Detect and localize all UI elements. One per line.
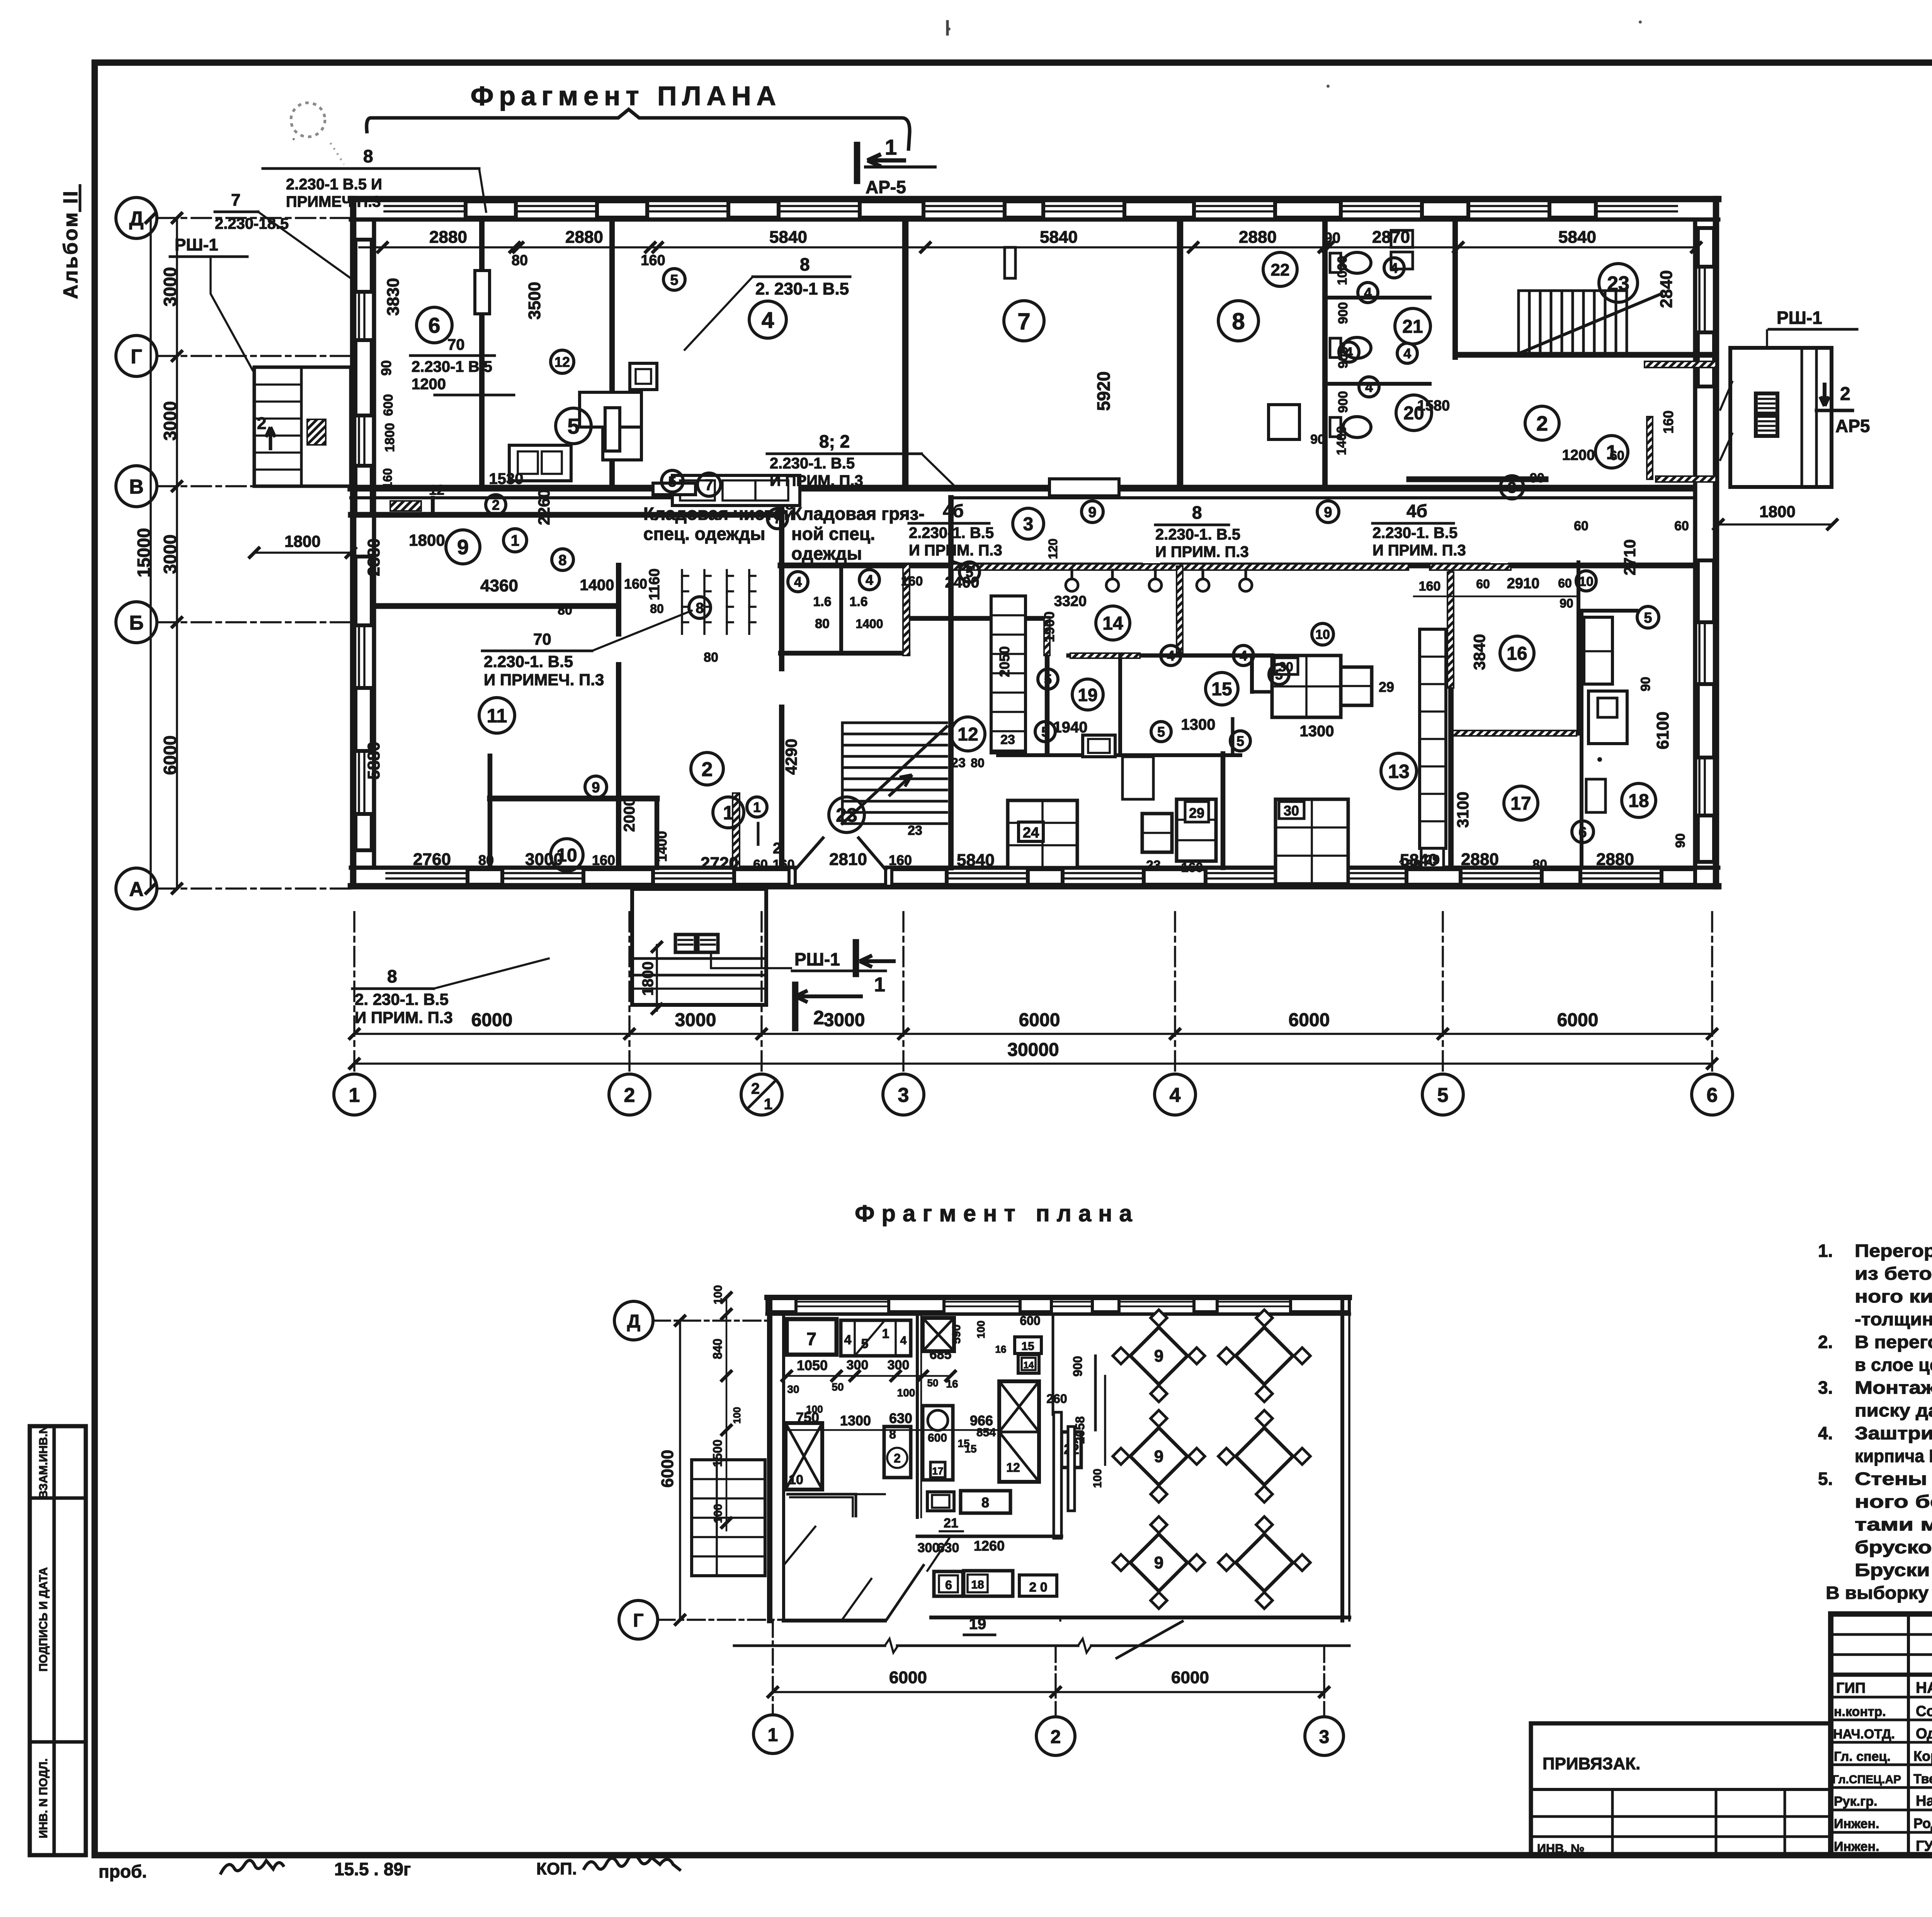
svg-text:4б: 4б [943,501,964,521]
svg-text:12: 12 [1006,1461,1020,1474]
svg-text:8; 2: 8; 2 [819,431,850,451]
stair treads room 23 upper [1517,291,1520,354]
svg-text:3000: 3000 [160,401,180,441]
wall under room 19 [998,753,1240,757]
room circle 15 [1206,672,1238,705]
svg-text:И ПРИМ. П.3: И ПРИМ. П.3 [909,542,1002,559]
leader circle 2 tambour [486,495,506,515]
axis circle В [116,466,157,507]
svg-text:23: 23 [1000,732,1015,747]
svg-text:Стены сушильной камеры и та: Стены сушильной камеры и тамбуров утепли… [1855,1469,1932,1489]
svg-text:18: 18 [971,1578,984,1591]
svg-text:630: 630 [889,1410,912,1426]
svg-text:9: 9 [1154,1553,1163,1572]
svg-text:21: 21 [944,1516,958,1531]
axis circle 1 [334,1074,375,1115]
svg-text:160: 160 [889,852,912,868]
svg-text:70: 70 [447,336,465,353]
fragment kitchen box 7 [787,1319,837,1355]
svg-text:РШ-1: РШ-1 [794,949,840,969]
room circle 13 [1381,753,1417,789]
handwritten name scribble [583,1855,681,1871]
wall rooms 13-16 [1448,570,1454,868]
svg-text:80: 80 [815,616,830,631]
svg-text:260: 260 [1046,1392,1067,1406]
svg-text:19: 19 [969,1616,986,1633]
dimension 1800 south vertical [656,945,658,1011]
svg-text:ПРИВЯЗАК.: ПРИВЯЗАК. [1543,1754,1640,1773]
locker block 30 upper [1272,655,1341,717]
stair treads room 23 lower [842,722,947,724]
svg-text:НАЗАРОВА: НАЗАРОВА [1916,1679,1932,1696]
svg-text:ПОДПИСЬ И ДАТА: ПОДПИСЬ И ДАТА [37,1567,50,1672]
room 12 locker column [991,596,1026,753]
section flag 1 АР-5 top [854,145,861,181]
svg-text:6: 6 [945,1578,952,1592]
south wall inner face west [351,866,794,870]
svg-text:5: 5 [668,474,676,490]
svg-text:15: 15 [1211,679,1232,700]
svg-text:14: 14 [1024,1360,1034,1371]
fragment axis circle 2 [1036,1717,1075,1755]
svg-text:4: 4 [1403,346,1411,361]
svg-text:1200: 1200 [1562,447,1595,463]
leader circle 10 east [1576,571,1596,591]
corridor north wall inner line [351,496,781,499]
svg-text:И ПРИМ. П.3: И ПРИМ. П.3 [1372,542,1466,559]
svg-text:АР5: АР5 [1835,416,1870,436]
svg-text:5920: 5920 [1094,371,1114,411]
wall toilets - stair 23 [1452,220,1458,357]
locker column room 13 east [1420,629,1446,848]
leader circle 5 shower 6 [1230,731,1250,751]
svg-text:160: 160 [1399,857,1421,872]
svg-text:2.230-1. В.5: 2.230-1. В.5 [1372,524,1458,541]
svg-text:2: 2 [492,497,500,513]
svg-text:4360: 4360 [480,576,518,595]
dining tables [1130,1327,1187,1384]
leader circle 6 room17 [1572,821,1594,843]
svg-text:Инжен.: Инжен. [1834,1839,1879,1854]
svg-text:3500: 3500 [525,282,544,320]
svg-text:5840: 5840 [769,228,807,247]
wall rooms 16-17 [1451,731,1578,736]
fragment bottom boxes 6 18 20 [934,1571,963,1596]
room circle 21 [1395,308,1430,344]
svg-text:ГИП: ГИП [1836,1680,1866,1696]
axis circle 3 [883,1074,924,1115]
fragment tall X-box [999,1381,1039,1482]
leader circle 4 storeroom 2 [859,570,879,590]
svg-text:20: 20 [1403,403,1424,424]
svg-text:ИНВ. №: ИНВ. № [1537,1842,1585,1856]
svg-text:9: 9 [1324,504,1332,521]
door leaf room 6 [475,271,490,314]
svg-text:Кладовая чистой: Кладовая чистой [643,504,795,524]
svg-text:1300: 1300 [840,1413,871,1428]
svg-text:100: 100 [731,1407,743,1423]
fragment west wall [767,1297,772,1621]
leader circle 3 east [1500,476,1524,499]
svg-text:2810: 2810 [829,850,867,869]
svg-text:10: 10 [556,845,577,866]
room circle 18 [1622,783,1656,817]
room circle 23 upper [1599,264,1638,302]
svg-text:Кладовая гряз-: Кладовая гряз- [791,504,925,524]
fragment door swing lines [887,1565,923,1619]
wall rooms 12-13 [1221,754,1226,868]
svg-text:1800: 1800 [284,532,320,550]
svg-text:300: 300 [918,1541,940,1555]
partition room 19 [1118,655,1122,755]
svg-text:1800: 1800 [409,531,445,549]
fragment bottom dimension chain [773,1691,1324,1693]
locker block 30 lower [1276,799,1348,884]
svg-text:2880: 2880 [364,538,383,576]
svg-text:12: 12 [429,482,444,498]
svg-text:5: 5 [1275,667,1283,683]
svg-text:2880: 2880 [1239,228,1277,247]
room circle 1 west [713,797,744,828]
room 5 sink counter [672,475,800,506]
room 18 bench [1586,779,1605,812]
svg-text:В выборку металла к данном: В выборку металла к данному листу см. АР… [1826,1583,1932,1603]
svg-text:4: 4 [1364,285,1372,301]
bottom interior dimension chain [383,862,1696,863]
hatched wall rooms 14-15 [1177,566,1183,653]
svg-text:18: 18 [1628,791,1649,811]
fragment left dimension 6000 [679,1321,681,1620]
fragment box 22 [1061,1432,1081,1468]
svg-text:3: 3 [1508,479,1516,496]
svg-text:1400: 1400 [855,617,883,631]
svg-text:Б: Б [129,612,143,634]
fragment small vertical dims [726,1299,728,1531]
svg-text:писку данной серии.: писку данной серии. [1855,1400,1932,1420]
east section mark 2 [1820,383,1829,406]
svg-text:Бруски пропитать огнезащитны: Бруски пропитать огнезащитным составом. [1855,1560,1932,1580]
svg-text:11: 11 [487,705,507,727]
fragment vertical bars [1054,1412,1061,1538]
entrance door jambs south [789,868,795,886]
svg-text:23: 23 [1607,272,1629,295]
wall rooms 7-8 [1177,220,1184,488]
svg-text:И ПРИМЕЧ. П.3: И ПРИМЕЧ. П.3 [484,671,604,689]
svg-text:5840: 5840 [957,851,995,870]
svg-text:160: 160 [901,574,923,589]
svg-text:2870: 2870 [1372,228,1410,247]
svg-text:300: 300 [888,1358,910,1372]
wall rooms 14-19 [1252,690,1272,694]
section flag 1 bottom [853,942,859,974]
svg-text:ПРИМЕЧ П.3: ПРИМЕЧ П.3 [286,193,381,210]
svg-text:проб.: проб. [99,1861,147,1881]
svg-text:в слое цементного раствора на: в слое цементного раствора на толщину пе… [1855,1355,1932,1375]
svg-text:8: 8 [696,600,704,616]
svg-text:160: 160 [381,468,395,489]
west entrance partitions [431,498,435,515]
fragment brace [367,109,910,151]
fragment box 21 [927,1492,954,1511]
svg-text:1400: 1400 [580,577,614,594]
top dimension chain [359,246,1696,249]
south wall piers [468,869,502,885]
svg-text:1900: 1900 [1041,611,1057,642]
svg-text:685: 685 [930,1347,952,1362]
svg-text:7: 7 [1017,308,1030,334]
wall rooms 19-15 [1231,719,1235,755]
svg-text:8: 8 [558,552,566,569]
svg-text:6000: 6000 [1289,1010,1330,1030]
svg-text:4.: 4. [1818,1423,1833,1443]
svg-text:2260: 2260 [535,489,553,525]
room circle 20 [1396,395,1432,431]
axis circle 2/1 [741,1074,782,1115]
leader circle 5 mid [662,470,683,492]
vestibule west wall upper [779,498,784,669]
fragment X-box top [923,1318,954,1351]
fragment south wall [784,1619,885,1622]
room circle 5 [556,408,591,444]
svg-text:23: 23 [951,756,966,770]
svg-text:6000: 6000 [1171,1668,1209,1687]
svg-text:7: 7 [806,1329,816,1349]
wall 9-10 upper [616,565,621,634]
fragment axis Д [614,1301,653,1340]
svg-text:4: 4 [1365,379,1373,395]
svg-text:2.230-1 В.5: 2.230-1 В.5 [412,358,492,375]
svg-text:-толщиной 120мм.: -толщиной 120мм. [1855,1309,1932,1329]
room 18 table [1588,691,1627,744]
svg-text:10: 10 [1315,627,1330,642]
svg-text:10: 10 [1579,574,1594,589]
title block outer [1831,1614,1932,1855]
leader circle 5 room16 [1637,606,1659,628]
fragment shelf below 10 [786,1494,856,1517]
svg-text:Д: Д [627,1311,640,1332]
bottom dimension chain [354,1033,1712,1035]
svg-text:9: 9 [1154,1447,1163,1466]
locker block 29 [1177,799,1216,861]
svg-text:160: 160 [1419,579,1441,594]
svg-text:3.: 3. [1818,1377,1833,1398]
svg-text:АР-5: АР-5 [866,177,906,197]
привязка box [1531,1723,1831,1855]
south wall window glazing [386,872,468,874]
svg-text:16: 16 [995,1343,1007,1355]
leader circle 4 toilet 3 [1339,342,1359,362]
svg-text:4290: 4290 [782,739,800,775]
svg-text:1800: 1800 [383,423,397,452]
room 8 couch [1269,405,1299,439]
svg-text:1160: 1160 [646,569,663,600]
svg-text:РШ-1: РШ-1 [175,235,218,254]
svg-text:90: 90 [378,360,394,376]
room circle 10 [551,839,583,871]
svg-text:13: 13 [1388,761,1410,782]
room circle 7 [1004,301,1044,341]
east corridor south wall west segment [1409,477,1546,482]
svg-text:160: 160 [773,857,795,872]
wall under showers [1068,654,1272,658]
room 10 west wall [488,756,493,868]
svg-text:17: 17 [932,1465,944,1477]
svg-text:4: 4 [1170,1084,1181,1107]
leader circle 7 small [767,509,787,529]
svg-text:1: 1 [349,1084,360,1107]
svg-text:Назарова: Назарова [1916,1793,1932,1809]
svg-text:кирпича КР 15 |1650|15 ГОСТ 53: кирпича КР 15 |1650|15 ГОСТ 530-80 НА РА… [1855,1446,1932,1466]
left dimension chain [176,218,178,889]
svg-text:100: 100 [806,1403,823,1415]
svg-text:4: 4 [794,574,802,590]
section flag 2 bottom west [792,985,799,1028]
svg-text:2. 230-1. В.5: 2. 230-1. В.5 [355,990,449,1008]
svg-text:9: 9 [457,536,469,559]
axis circle 6 [1692,1074,1733,1115]
wall rooms 5-4 [609,220,615,488]
svg-text:120: 120 [1046,538,1060,559]
north wall outer face [351,196,1718,203]
fragment axis Г [619,1600,658,1639]
svg-text:6000: 6000 [658,1450,677,1488]
svg-text:23: 23 [908,823,922,838]
svg-text:5: 5 [670,272,678,288]
svg-text:1260: 1260 [974,1538,1005,1554]
svg-text:600: 600 [1020,1314,1040,1328]
storeroom divider [839,565,843,653]
svg-text:И ПРИМ. П.3: И ПРИМ. П.3 [355,1008,453,1027]
west wall outer face [350,199,357,886]
svg-text:100: 100 [1091,1469,1104,1488]
svg-text:1: 1 [768,1725,778,1745]
svg-text:Гл.СПЕЦ.АР: Гл.СПЕЦ.АР [1832,1773,1901,1786]
room circle 2 west [691,752,723,785]
svg-text:из бетонных камней ГОСТ 6133-8: из бетонных камней ГОСТ 6133-84- толщино… [1855,1263,1932,1284]
wall rooms 17-18 [1580,611,1583,868]
svg-text:Г: Г [633,1611,643,1631]
svg-text:80: 80 [971,756,985,770]
east porch [1730,348,1832,487]
svg-text:2: 2 [702,758,713,781]
svg-text:3000: 3000 [824,1010,865,1030]
svg-text:4: 4 [900,1334,907,1347]
west wall inner face [372,220,376,868]
svg-text:1.: 1. [1818,1241,1833,1261]
svg-text:50: 50 [927,1377,939,1389]
axis circle 5 [1422,1074,1463,1115]
leader circle 4 toilet 4 [1397,343,1417,363]
svg-text:Г: Г [131,346,142,368]
svg-text:Заштрихованные участки стен: Заштрихованные участки стен выполнить из… [1855,1423,1932,1443]
svg-text:3: 3 [898,1084,909,1107]
svg-text:30000: 30000 [1007,1040,1059,1060]
svg-text:2: 2 [257,414,266,433]
west section mark 2 [266,427,275,450]
leader circle 10 [1312,623,1333,645]
locker small 29 [1142,814,1172,852]
svg-text:2050: 2050 [997,646,1012,677]
svg-text:80: 80 [1532,857,1547,872]
svg-text:30: 30 [1284,803,1299,819]
fragment boxes 15 14 [1015,1337,1041,1353]
svg-text:4б: 4б [1406,501,1427,521]
svg-text:9: 9 [592,780,600,796]
leader circle 4 shower [1161,645,1181,666]
svg-text:5: 5 [1437,1084,1449,1107]
axis circle 4 [1155,1074,1196,1115]
svg-text:4: 4 [762,308,774,333]
fragment dimension texts [787,1375,951,1377]
locker 29 right [1341,667,1372,705]
svg-text:70: 70 [533,630,551,648]
svg-text:4: 4 [1345,344,1353,360]
svg-text:160: 160 [641,252,665,269]
svg-text:3000: 3000 [160,267,180,306]
room circle 12 [951,717,985,751]
svg-text:160: 160 [624,576,647,592]
washbasins room 22 [1391,230,1413,247]
svg-text:2880: 2880 [565,228,603,247]
svg-text:2: 2 [624,1084,635,1107]
svg-text:8: 8 [981,1495,989,1510]
leader circle 5 shower 5 [1269,664,1289,684]
svg-text:5: 5 [861,1336,869,1351]
leader circle 1 tambour [503,529,527,552]
name rows [1831,1696,1932,1699]
room circle 16 [1500,636,1534,670]
room 6 counters [580,392,641,427]
east wall outer face [1713,199,1719,886]
svg-text:ной спец.: ной спец. [791,524,875,544]
svg-text:2880: 2880 [429,228,467,247]
svg-text:60: 60 [1476,577,1490,591]
south entrance porch [632,889,766,1005]
svg-text:60: 60 [1558,576,1572,590]
shower west wall [1045,618,1050,754]
west wall window glazing [358,292,360,340]
storeroom shelving [681,570,683,634]
room circle 23 lower [829,797,864,833]
svg-text:160: 160 [1660,410,1676,434]
bottom total dimension 30000 [354,1062,1712,1065]
leader circle 4 storeroom [788,572,808,592]
svg-text:7: 7 [705,477,713,494]
svg-text:22: 22 [1271,260,1290,279]
svg-text:тами марки 100 толщиной 50: тами марки 100 толщиной 50мм по ГОСТ 123… [1855,1514,1932,1534]
svg-text:5: 5 [1157,724,1165,740]
leader circle 4 toilet 5 [1359,377,1379,397]
svg-text:60: 60 [753,857,768,872]
fragment axis circle 3 [1305,1717,1344,1755]
svg-text:2: 2 [751,1080,760,1097]
svg-text:2: 2 [813,1007,824,1028]
left total dimension 15000 [150,218,152,889]
svg-text:160: 160 [1181,860,1203,875]
faint smudge circle top-left [291,103,325,137]
svg-text:1400: 1400 [654,831,670,862]
toilet bowls [1330,253,1341,272]
svg-text:90: 90 [1560,596,1573,610]
left stamp column boxes [30,1426,86,1855]
svg-text:90: 90 [1324,230,1340,246]
leader circle 9 corridor east [1317,501,1339,523]
svg-text:1800: 1800 [639,962,656,996]
room circle 22 [1263,252,1297,286]
svg-text:3100: 3100 [1454,792,1472,827]
svg-text:29: 29 [1189,805,1204,821]
svg-text:НАЧ.ОТД.: НАЧ.ОТД. [1833,1727,1895,1742]
